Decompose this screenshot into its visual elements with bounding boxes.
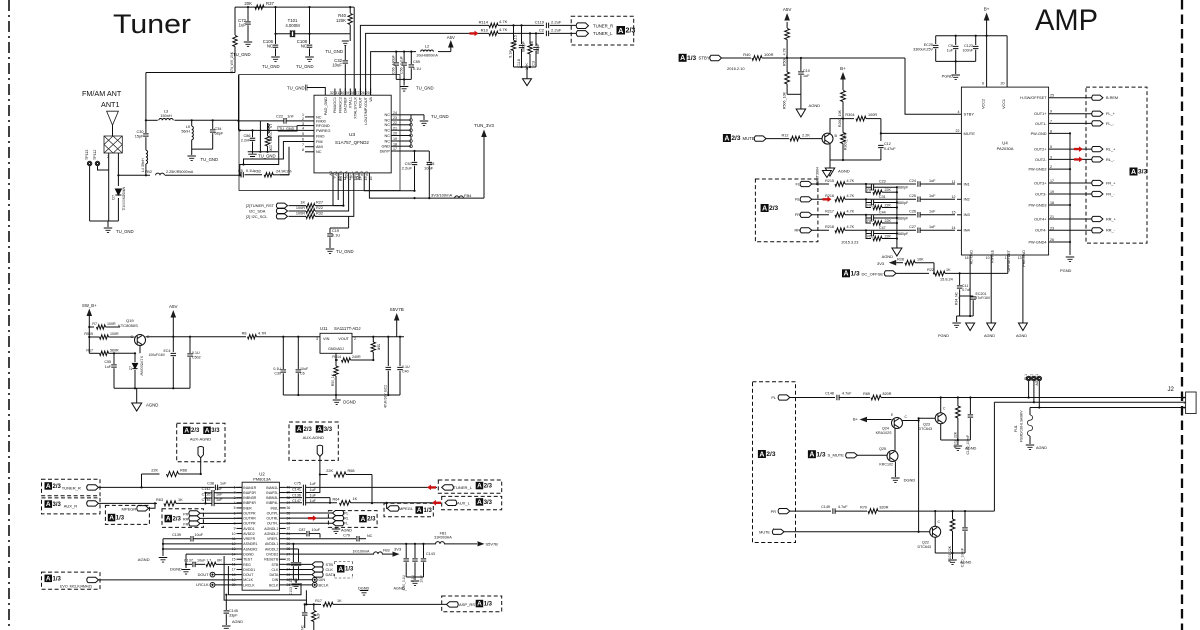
svg-text:PAD_GND: PAD_GND xyxy=(324,97,328,115)
capacitor EC25 3300uF,25V xyxy=(935,36,937,44)
svg-text:DGND: DGND xyxy=(343,400,356,405)
svg-text:2.2uF: 2.2uF xyxy=(402,166,413,171)
wire row13 drop xyxy=(286,548,299,550)
svg-text:FL: FL xyxy=(344,522,348,526)
svg-text:7: 7 xyxy=(302,143,304,147)
wire regulator ground rail xyxy=(114,387,190,389)
svg-text:C27: C27 xyxy=(909,225,916,229)
sheet border left xyxy=(8,0,10,630)
svg-text:22: 22 xyxy=(955,129,959,133)
svg-text:VREFL: VREFL xyxy=(267,537,278,541)
net label TU_GND boxed xyxy=(278,126,297,131)
svg-text:STB: STB xyxy=(326,563,334,567)
svg-text:MMSD9000X11: MMSD9000X11 xyxy=(122,187,126,211)
svg-text:U11: U11 xyxy=(320,326,328,331)
svg-text:1uF: 1uF xyxy=(216,487,223,491)
pin 14 U2 DGND xyxy=(237,553,243,555)
wire MPEGL join xyxy=(386,503,388,509)
svg-text:C38: C38 xyxy=(207,481,214,485)
svg-text:8: 8 xyxy=(302,148,304,152)
connector AUX-AGND left tag down xyxy=(198,447,203,458)
svg-text:33pF: 33pF xyxy=(229,614,238,618)
transistor Q23 DTC643 xyxy=(935,413,946,424)
wire aux bus vertical xyxy=(205,493,207,504)
svg-text:PA2030A: PA2030A xyxy=(997,146,1014,151)
svg-text:12: 12 xyxy=(951,195,955,199)
svg-text:DIN: DIN xyxy=(272,578,279,582)
svg-text:A: A xyxy=(477,601,482,608)
svg-text:B+: B+ xyxy=(984,7,990,12)
svg-text:240R: 240R xyxy=(352,355,361,359)
ground TU_GND inverted at DACREF xyxy=(342,41,349,46)
svg-text:17: 17 xyxy=(1050,179,1054,183)
resistor R40 100R amp xyxy=(752,56,762,61)
svg-text:A0: A0 xyxy=(329,171,333,176)
svg-text:1K: 1K xyxy=(353,497,358,501)
wire DGND row 14 xyxy=(186,553,237,555)
ground TU_GND A5V caps xyxy=(403,79,405,85)
svg-text:3/3: 3/3 xyxy=(1138,169,1147,176)
svg-text:C79: C79 xyxy=(343,533,350,537)
crystal T101 4.000M xyxy=(290,30,294,37)
power B+ amp main xyxy=(984,13,990,21)
capacitor C57 2.2uF xyxy=(412,162,418,164)
svg-text:A: A xyxy=(338,566,343,573)
ground TU_GND under C72 xyxy=(244,42,253,47)
svg-text:NC: NC xyxy=(384,118,390,122)
resistor R27 1K xyxy=(289,205,307,207)
pin 29 U3 XTAL1 xyxy=(349,89,351,96)
power 3V3 right arrow xyxy=(393,551,400,556)
pin 17 U2 DVDD1 xyxy=(237,568,243,570)
svg-text:2/3: 2/3 xyxy=(769,205,778,212)
connector RL_- xyxy=(1092,157,1103,162)
svg-text:L3: L3 xyxy=(164,109,169,114)
svg-text:TU_GND: TU_GND xyxy=(416,86,434,91)
ground AGND q23 xyxy=(954,446,963,451)
ferrite bead FB2 2.25K/R5000mA xyxy=(156,173,165,175)
svg-text:3/3: 3/3 xyxy=(324,427,333,433)
svg-text:EVO_MCLK(4MHZ): EVO_MCLK(4MHZ) xyxy=(60,585,92,589)
capacitor C123 100nF xyxy=(975,36,977,45)
svg-text:22K: 22K xyxy=(885,219,892,223)
svg-text:2/3: 2/3 xyxy=(304,427,313,433)
connector FL_+ xyxy=(1092,111,1103,116)
svg-text:150nH: 150nH xyxy=(160,114,172,118)
resistor R32 100R xyxy=(289,215,307,217)
svg-text:C143: C143 xyxy=(426,552,435,556)
svg-text:R28: R28 xyxy=(897,258,904,262)
pin 17 U3 DBYP xyxy=(391,150,402,152)
svg-text:31R003HA: 31R003HA xyxy=(434,536,452,540)
svg-text:C137__10uF: C137__10uF xyxy=(184,559,206,563)
resistor R506 10K pulldown xyxy=(785,72,790,84)
svg-text:1/3: 1/3 xyxy=(424,508,433,514)
svg-text:A: A xyxy=(762,205,767,212)
svg-text:R304: R304 xyxy=(845,113,855,117)
svg-text:47uF/16V: 47uF/16V xyxy=(976,296,991,300)
connector TUNER_R xyxy=(576,23,588,29)
svg-text:A: A xyxy=(1131,169,1136,176)
svg-text:56R: 56R xyxy=(377,344,381,351)
connector MPEGL xyxy=(387,506,399,511)
pin 20 U3 NC xyxy=(391,135,402,137)
svg-text:LRCLK: LRCLK xyxy=(196,583,209,587)
svg-text:ROUT: ROUT xyxy=(359,96,363,108)
svg-text:9: 9 xyxy=(1050,110,1052,114)
svg-text:FMI: FMI xyxy=(316,140,323,144)
svg-text:S5V7B: S5V7B xyxy=(390,307,404,312)
wire antenna ground rail xyxy=(90,220,119,222)
ground AGND above inputs xyxy=(822,171,831,178)
sheet border right xyxy=(1181,0,1183,630)
svg-text:PR: PR xyxy=(771,510,777,514)
pin 30 U2 VREFL xyxy=(279,538,285,540)
svg-text:C19: C19 xyxy=(332,229,339,233)
svg-text:INER: INER xyxy=(243,506,252,510)
svg-text:100R: 100R xyxy=(868,113,877,117)
connector DC_OFFSET xyxy=(884,271,896,276)
svg-text:8: 8 xyxy=(1050,129,1052,133)
pin 25 U3 VA xyxy=(370,89,372,96)
connector TUNER_L in xyxy=(442,485,454,490)
svg-text:INSL: INSL xyxy=(271,506,279,510)
wire cap rail xyxy=(396,78,411,80)
antenna coil hatched box xyxy=(104,136,122,153)
svg-text:R215: R215 xyxy=(825,179,834,183)
svg-text:23: 23 xyxy=(393,116,397,120)
pin 29 U2 AVDDL1 xyxy=(279,543,285,545)
svg-text:INBN3R: INBN3R xyxy=(243,496,256,500)
svg-text:C23: C23 xyxy=(879,180,886,184)
svg-text:DATA: DATA xyxy=(269,573,278,577)
svg-text:MUTE: MUTE xyxy=(964,131,976,136)
wire S_MUTE to Q25 xyxy=(857,454,887,456)
wire FM00 net xyxy=(239,120,285,122)
svg-text:C55: C55 xyxy=(104,360,111,364)
resistor R303 47K vertical xyxy=(841,133,846,144)
svg-text:20: 20 xyxy=(1000,82,1004,86)
pin 32 U2 AGNDL1 xyxy=(279,527,285,529)
pin 31 U2 AGNDL2 xyxy=(279,533,285,535)
pin 24 U2 CLK xyxy=(279,568,285,570)
connector S_MUTE xyxy=(846,453,858,458)
svg-text:MPEGL: MPEGL xyxy=(399,506,414,511)
capacitor C38 1uF xyxy=(215,485,217,491)
wire AGND rail small xyxy=(406,576,423,578)
sheet ref A2/3 line out box xyxy=(753,382,796,543)
pin 24 U3 NC xyxy=(391,114,402,116)
svg-text:2015.3.23: 2015.3.23 xyxy=(841,241,858,245)
svg-text:GND/ADJ: GND/ADJ xyxy=(328,347,344,351)
capacitor C47 680pF shunt xyxy=(866,230,871,233)
svg-text:1/3: 1/3 xyxy=(687,55,696,62)
svg-text:PL1: PL1 xyxy=(1024,374,1028,380)
capacitor C139b 100nF vertical xyxy=(969,398,971,415)
wire NC bus right of U3 xyxy=(410,115,412,146)
svg-text:3: 3 xyxy=(1183,406,1185,410)
svg-text:9.1V/500mW: 9.1V/500mW xyxy=(140,356,144,376)
sheet ref AUX-AGND left box xyxy=(177,423,225,461)
resistor R10 4.7K xyxy=(489,31,498,35)
svg-text:RL: RL xyxy=(795,198,800,202)
svg-text:OUT1+: OUT1+ xyxy=(1034,112,1047,116)
svg-text:MUTE: MUTE xyxy=(759,530,770,534)
svg-text:PW-GND4: PW-GND4 xyxy=(1028,240,1047,244)
svg-text:Q25: Q25 xyxy=(879,447,886,451)
wire row12 rail xyxy=(286,543,436,545)
connector CLK xyxy=(286,568,312,570)
svg-text:0.47uF: 0.47uF xyxy=(884,147,896,151)
sheet ref TUNER_L box xyxy=(438,480,501,493)
antenna ANT1 symbol xyxy=(107,111,119,125)
svg-text:1uF: 1uF xyxy=(216,498,223,502)
svg-text:AVDD2: AVDD2 xyxy=(243,532,254,536)
resistor R216 4.7K xyxy=(835,197,845,202)
svg-text:5: 5 xyxy=(1050,145,1052,149)
svg-text:AGND: AGND xyxy=(1016,334,1027,338)
connector ASP_RST xyxy=(447,602,459,607)
connector PL right xyxy=(286,512,333,514)
red arrow RL_- xyxy=(1074,157,1083,163)
wire R68 drop to AUX_L row xyxy=(371,475,373,504)
wire crystal net xyxy=(276,33,351,35)
svg-text:OUT1-: OUT1- xyxy=(1035,122,1047,126)
resistor R51 56R vertical xyxy=(372,337,374,342)
pin 12 U2 ASNDR1 xyxy=(237,543,243,545)
svg-text:1uF: 1uF xyxy=(929,210,936,214)
pin 7 U3 AMI xyxy=(305,146,314,148)
pin 34 U2 OUTRL xyxy=(279,517,285,519)
svg-text:1/3: 1/3 xyxy=(851,271,860,278)
wire VD rail lower / 3V3 feed xyxy=(369,180,484,198)
ground PGND offset xyxy=(956,316,958,322)
connector STB xyxy=(286,563,312,565)
svg-text:C142: C142 xyxy=(202,487,211,491)
pin 2 U2 INAP2R xyxy=(237,492,243,494)
svg-text:TU_GND: TU_GND xyxy=(325,49,343,54)
svg-text:6: 6 xyxy=(982,82,984,86)
svg-text:1: 1 xyxy=(1005,256,1007,260)
wire antenna up leg xyxy=(145,120,147,133)
svg-text:PGND: PGND xyxy=(942,74,954,79)
pin 15 U3 VD xyxy=(363,173,365,180)
pin 28 U3 XTALSYCLK xyxy=(354,89,356,96)
svg-text:10uF: 10uF xyxy=(300,367,309,371)
svg-text:DBYP: DBYP xyxy=(380,149,391,153)
wire U11 ground rail xyxy=(283,394,400,396)
wire Q19 emitter to A5V rail xyxy=(146,336,191,338)
capacitor C148 4.7uF xyxy=(837,395,839,401)
connector MPEGR xyxy=(137,506,149,511)
svg-text:IN3: IN3 xyxy=(964,212,971,217)
ground AGND acgnd xyxy=(966,323,975,331)
capacitor C87 10uF xyxy=(286,533,306,535)
svg-text:RL_+: RL_+ xyxy=(1106,148,1116,152)
resistor R66 22K xyxy=(142,473,160,475)
svg-text:STBY: STBY xyxy=(964,112,975,117)
svg-text:DGND: DGND xyxy=(358,587,370,591)
svg-text:C44: C44 xyxy=(879,210,886,214)
svg-text:32: 32 xyxy=(330,91,334,95)
wire big-box left edge feed xyxy=(145,73,147,121)
wire supply rail bottom xyxy=(936,60,976,62)
ground AGND ripple xyxy=(987,323,996,331)
svg-text:IN4: IN4 xyxy=(964,228,971,233)
wire Q25 emitter to DGND xyxy=(894,462,896,478)
pin 1 U2 INAN1R xyxy=(237,486,243,488)
ferrite bead FB4 xyxy=(455,196,464,198)
connector RR_- xyxy=(1092,228,1103,233)
resistor R63 1K xyxy=(164,501,176,506)
ground AGND stby xyxy=(796,109,806,117)
svg-text:L2: L2 xyxy=(425,44,430,49)
connector B.REM xyxy=(1092,95,1103,100)
svg-text:C66_100pF: C66_100pF xyxy=(392,54,396,74)
resistor R22 100R xyxy=(289,210,307,212)
svg-text:C3: C3 xyxy=(532,61,536,66)
svg-text:2.2uF: 2.2uF xyxy=(551,19,562,24)
svg-text:TU_GND: TU_GND xyxy=(258,154,276,159)
svg-text:R27: R27 xyxy=(316,201,323,205)
svg-text:B+: B+ xyxy=(840,66,846,71)
svg-text:FU1: FU1 xyxy=(1014,425,1018,432)
svg-text:C75: C75 xyxy=(294,482,301,486)
capacitor C25 1uF xyxy=(918,197,920,203)
red arrow RL_+ xyxy=(1074,146,1083,152)
pin 9 U3 A0 xyxy=(332,173,334,180)
svg-text:47K: 47K xyxy=(316,613,320,620)
svg-text:RFGND: RFGND xyxy=(316,124,330,128)
capacitor C3 680pF shunt xyxy=(535,33,537,46)
svg-text:RR: RR xyxy=(794,229,800,233)
wire MPEGR join xyxy=(149,503,156,508)
svg-text:OUTPR: OUTPR xyxy=(243,522,256,526)
capacitor C24 1uF xyxy=(918,181,920,187)
pin 23 U3 NC xyxy=(391,119,402,121)
ground AGND caps xyxy=(411,581,420,586)
svg-text:3V3: 3V3 xyxy=(877,261,885,266)
svg-text:OUT4-: OUT4- xyxy=(1035,229,1047,233)
svg-text:D7: D7 xyxy=(112,195,116,200)
svg-text:19: 19 xyxy=(1050,190,1054,194)
svg-text:XTALSYCLK: XTALSYCLK xyxy=(354,97,358,119)
sheet ref MPEGR box xyxy=(105,505,149,524)
pin 38 U2 INBN3L xyxy=(279,497,285,499)
svg-text:10uF: 10uF xyxy=(419,575,423,583)
sheet ref A2/3 right out box xyxy=(328,511,377,528)
wire AUX-AGND left stem xyxy=(200,458,202,474)
svg-text:DVDD1: DVDD1 xyxy=(243,568,255,572)
svg-text:DOUT: DOUT xyxy=(198,573,210,577)
svg-text:AMI: AMI xyxy=(316,145,323,149)
svg-text:C136: C136 xyxy=(292,493,301,497)
svg-text:9.1K: 9.1K xyxy=(509,50,513,58)
ground TU_GND L5 xyxy=(187,156,196,161)
svg-text:22K: 22K xyxy=(326,469,333,473)
svg-text:A5V: A5V xyxy=(169,304,178,309)
pin 25 U2 STB xyxy=(279,563,285,565)
pin 16 U3 VD xyxy=(368,173,370,180)
svg-text:C147: C147 xyxy=(292,499,301,503)
resistor R69 820R xyxy=(871,395,881,400)
connector RL right xyxy=(286,517,333,519)
pin 21 U2 BCLK xyxy=(279,584,285,586)
svg-text:820R: 820R xyxy=(883,392,892,396)
svg-text:1uF: 1uF xyxy=(929,194,936,198)
svg-text:RL: RL xyxy=(344,517,349,521)
sheet ref A3/3 amp out box xyxy=(1086,87,1147,243)
svg-text:1uF: 1uF xyxy=(220,481,227,485)
svg-text:MUTE: MUTE xyxy=(743,136,755,141)
svg-text:C135: C135 xyxy=(202,492,211,496)
svg-text:OUTRL: OUTRL xyxy=(266,517,278,521)
svg-text:A: A xyxy=(477,483,482,490)
svg-text:TEST: TEST xyxy=(243,558,253,562)
svg-text:C12: C12 xyxy=(884,142,891,146)
svg-text:1/3: 1/3 xyxy=(345,567,354,573)
svg-text:0.1U: 0.1U xyxy=(332,234,340,238)
wire AMI net xyxy=(280,147,289,175)
svg-text:R34_NC: R34_NC xyxy=(955,291,959,305)
svg-text:FR: FR xyxy=(795,213,800,217)
svg-text:DOUT: DOUT xyxy=(243,573,254,577)
resistor R61 22K vertical xyxy=(265,136,269,146)
svg-text:4: 4 xyxy=(957,110,959,114)
svg-text:NC: NC xyxy=(316,150,322,154)
svg-text:2: 2 xyxy=(1050,165,1052,169)
capacitor C23 680pF shunt xyxy=(866,184,871,187)
resistor R40 120K vertical xyxy=(349,7,351,13)
sheet ref EVO_MCLK box xyxy=(42,572,101,589)
wire VA net xyxy=(371,52,416,96)
pin PAD_GND U3 xyxy=(307,88,325,96)
svg-text:20: 20 xyxy=(393,132,397,136)
test point TP112 xyxy=(95,161,99,165)
svg-text:680pF: 680pF xyxy=(522,40,526,52)
wire ground rail under cluster xyxy=(248,151,278,153)
svg-text:23: 23 xyxy=(1050,226,1054,230)
svg-text:0.1U: 0.1U xyxy=(192,351,200,355)
resistor R218 4.7K xyxy=(835,228,845,233)
svg-text:5: 5 xyxy=(234,506,236,510)
pin 27 U2 DVDD2 xyxy=(279,553,285,555)
svg-text:SA1117T-ADJ: SA1117T-ADJ xyxy=(334,326,361,331)
resistor R304 100R xyxy=(856,116,866,121)
resistor R37 20K xyxy=(255,5,264,9)
svg-text:BCLK: BCLK xyxy=(269,583,279,587)
wire Q24 collector xyxy=(903,420,919,422)
svg-text:Tuner: Tuner xyxy=(113,9,191,39)
svg-text:R115: R115 xyxy=(514,35,518,44)
svg-text:FMAGC1: FMAGC1 xyxy=(333,97,337,113)
pin 22 U3 NC xyxy=(391,124,402,126)
svg-text:OUTPL: OUTPL xyxy=(267,511,279,515)
svg-text:28: 28 xyxy=(350,91,354,95)
pin 20 U2 LRCLK xyxy=(237,584,243,586)
svg-text:C86: C86 xyxy=(243,134,250,138)
wire PR rise to bundle xyxy=(993,402,995,511)
svg-text:4.7uF: 4.7uF xyxy=(842,392,852,396)
svg-text:680pF: 680pF xyxy=(898,201,909,205)
svg-text:1/3: 1/3 xyxy=(484,602,493,608)
svg-text:1uF: 1uF xyxy=(929,179,936,183)
wire AUX-AGND right stem xyxy=(319,457,321,493)
svg-text:21: 21 xyxy=(393,126,397,130)
svg-text:PW-GND: PW-GND xyxy=(1031,132,1047,136)
svg-text:R8: R8 xyxy=(242,332,247,336)
wire RFGND net xyxy=(297,125,305,127)
